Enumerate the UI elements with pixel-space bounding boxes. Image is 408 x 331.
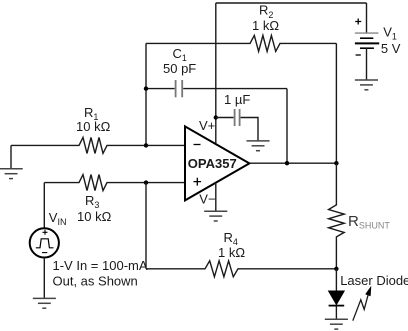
svg-text:OPA357: OPA357	[188, 156, 237, 171]
wire VIN to ground	[43, 257, 45, 298]
ground V- pin	[204, 211, 227, 221]
value label R2 1 kOhm	[252, 18, 279, 33]
label R3	[85, 193, 99, 210]
svg-text:V−: V−	[199, 192, 215, 207]
svg-text:50 pF: 50 pF	[163, 61, 196, 76]
wire C1 to output node	[286, 89, 288, 164]
capacitor C1	[146, 80, 287, 97]
label V1	[383, 25, 397, 42]
label OPA357	[188, 156, 237, 171]
resistor R3	[44, 175, 185, 191]
svg-text:V+: V+	[199, 118, 215, 133]
value label R3 10 kOhm	[77, 209, 112, 224]
svg-text:RSHUNT: RSHUNT	[348, 213, 390, 231]
annotation text line 1	[53, 258, 148, 273]
resistor RSHUNT	[329, 163, 345, 269]
label RSHUNT	[348, 213, 390, 231]
label R1	[84, 105, 98, 122]
svg-text:Laser Diode: Laser Diode	[340, 273, 408, 288]
light emission arrow	[353, 286, 372, 321]
value label 1 uF	[224, 92, 250, 107]
resistor R2	[146, 35, 336, 51]
node noninverting input junction	[144, 180, 148, 184]
value label R1 10 kOhm	[76, 119, 111, 134]
annotation text line 2	[53, 274, 138, 289]
ground laser diode	[325, 319, 348, 329]
svg-text:VIN: VIN	[49, 210, 67, 227]
op-amp U1 OPA357	[185, 126, 249, 200]
wire V+ supply vertical	[215, 3, 217, 144]
wire VIN to R3	[43, 183, 45, 229]
node output R2 junction	[334, 161, 338, 165]
label Laser Diode	[340, 273, 408, 288]
svg-text:1 kΩ: 1 kΩ	[252, 18, 279, 33]
svg-text:1-V In = 100-mA: 1-V In = 100-mA	[53, 258, 148, 273]
capacitor 1uF bypass	[216, 109, 258, 141]
label VIN	[49, 210, 67, 227]
svg-text:10 kΩ: 10 kΩ	[77, 209, 112, 224]
svg-text:V1: V1	[383, 25, 397, 42]
label C1	[173, 46, 187, 63]
pin V- label	[199, 192, 215, 207]
wire R2 to output node	[335, 43, 337, 163]
wire V- pin to ground	[215, 183, 217, 212]
resistor R4	[146, 261, 336, 277]
node laser diode junction	[334, 267, 338, 271]
label R2	[259, 3, 273, 20]
value label 5 V	[381, 41, 401, 56]
diode D1 laser diode	[329, 269, 345, 320]
value label C1 50 pF	[163, 61, 196, 76]
battery V1	[355, 3, 379, 80]
label R4	[224, 230, 238, 247]
svg-text:10 kΩ: 10 kΩ	[76, 119, 111, 134]
node V+ supply junction	[214, 115, 218, 119]
source VIN pulse source	[30, 228, 59, 257]
resistor R1	[11, 137, 185, 153]
ground bypass cap	[247, 141, 270, 151]
pin V+ label	[199, 118, 215, 133]
value label R4 1 kOhm	[218, 245, 245, 260]
ground input (R1 left)	[0, 145, 23, 178]
svg-text:5 V: 5 V	[381, 41, 401, 56]
wire top supply rail	[216, 2, 367, 4]
svg-text:R3: R3	[85, 193, 99, 210]
ground VIN	[33, 298, 56, 308]
ground battery	[355, 80, 378, 90]
node output C1 junction	[285, 161, 289, 165]
wire op-amp output	[249, 162, 336, 164]
wire noninverting node to R4	[145, 183, 147, 269]
svg-text:Out, as Shown: Out, as Shown	[53, 274, 138, 289]
node inverting input junction	[144, 143, 148, 147]
svg-text:1 µF: 1 µF	[224, 92, 250, 107]
wire feedback vertical	[145, 43, 147, 145]
node C1 tap junction	[144, 86, 148, 90]
svg-text:1 kΩ: 1 kΩ	[218, 245, 245, 260]
